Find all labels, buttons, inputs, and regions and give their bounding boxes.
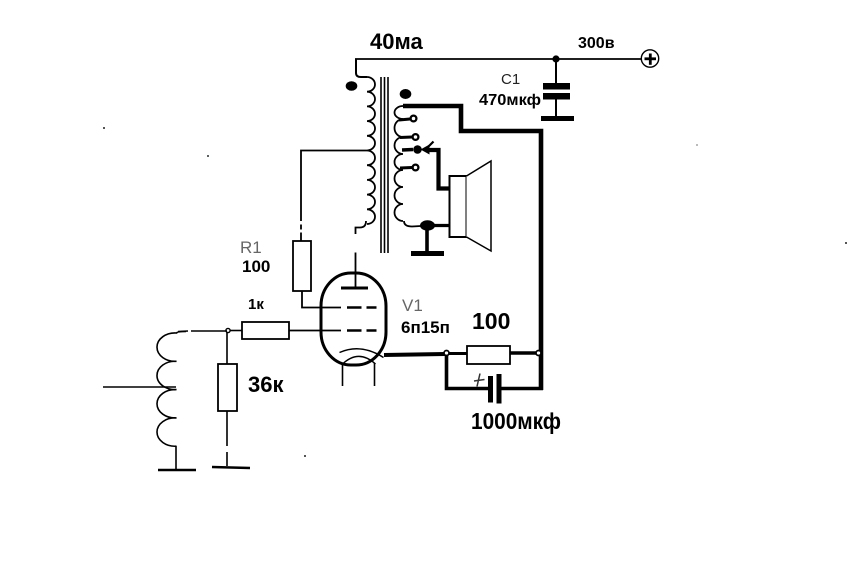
inductor L1 (input coil) [157, 332, 186, 447]
resistor 1к [242, 322, 289, 339]
capacitor C1 470мкф [543, 83, 570, 100]
wire: 36к bottom lead [226, 411, 228, 466]
ground: below 36к [212, 467, 250, 468]
svg-text:V1: V1 [402, 296, 423, 315]
wire: coil center tap [103, 386, 176, 388]
wire: junction to 36к [226, 332, 228, 364]
wire: C1 bottom plate to ground bar [555, 100, 557, 117]
transformer T1 primary winding [367, 77, 375, 224]
resistor 36к [218, 364, 237, 411]
svg-text:100: 100 [242, 257, 270, 276]
wire: rail to C1 top plate [555, 59, 557, 83]
wire: B+ top rail [355, 58, 642, 60]
tap 2 of secondary [400, 134, 418, 140]
wire: R1 bottom to screen grid [302, 291, 341, 308]
svg-text:40ма: 40ма [370, 29, 423, 54]
wire: secondary bottom lead [404, 221, 421, 227]
wire: junction to 1к resistor [230, 330, 242, 332]
node: junction of rail and C1 [552, 55, 559, 62]
ground: below input coil [158, 469, 196, 472]
stray speck 4 [207, 155, 209, 157]
heater pins of V1 [343, 363, 375, 386]
resistor 100 (cathode) [467, 346, 510, 364]
wire: ultralinear tap to R1 top [301, 151, 367, 242]
wire: bypass branch left [447, 355, 489, 389]
node: transformer primary phase dot [346, 81, 358, 91]
arrow: wiper selector [421, 142, 434, 155]
speaker LS1 [450, 161, 492, 251]
stray speck 5 [696, 144, 698, 146]
node: transformer secondary phase dot [400, 89, 412, 99]
ground: below C1 [541, 116, 574, 121]
grid g2 (dashed) of tube [347, 306, 377, 309]
grid g1 (dashed) of tube [347, 329, 377, 332]
resistor R1 100 [293, 241, 311, 291]
node: cathode junction left [444, 351, 449, 356]
svg-text:470мкф: 470мкф [479, 92, 541, 109]
stray speck 2 [845, 242, 847, 244]
svg-text:1000мкф: 1000мкф [471, 408, 561, 434]
svg-text:6п15п: 6п15п [401, 318, 450, 337]
tap 4 of secondary [400, 165, 418, 171]
svg-text:100: 100 [472, 308, 510, 334]
polarity + mark [474, 374, 485, 387]
transformer T1 core [381, 77, 388, 253]
capacitor 1000мкф [488, 374, 502, 404]
anode plate of V1 [341, 287, 368, 290]
svg-text:36к: 36к [248, 372, 284, 397]
transformer T1 secondary winding [395, 106, 404, 221]
ground: below speaker junction [411, 228, 444, 254]
terminal: +300V supply [641, 50, 658, 67]
svg-text:C1: C1 [501, 71, 520, 88]
cathode of V1 [340, 349, 384, 365]
svg-text:1к: 1к [248, 296, 264, 313]
wire: coil bottom lead [175, 446, 177, 469]
wire: cathode resistor to right bus [510, 351, 540, 354]
tap 3 of secondary (selected wiper) [402, 145, 422, 154]
wire: secondary top lead to right bus [403, 106, 541, 390]
tube V1 envelope [321, 273, 386, 365]
node: cathode junction right [536, 351, 541, 356]
node: grid input junction [226, 328, 230, 332]
wire: bypass branch right [502, 387, 544, 391]
stray speck 3 [304, 455, 306, 457]
wire: wiper to speaker top [428, 150, 449, 189]
wire: input top lead [178, 330, 227, 333]
wire: primary top lead from rail [356, 59, 367, 77]
node: secondary bottom junction dot [420, 220, 435, 230]
wire: 1к to control grid [289, 330, 341, 332]
svg-text:300в: 300в [578, 35, 615, 52]
stray speck 1 [103, 127, 105, 129]
wire: anode lead to primary bottom [356, 221, 367, 288]
wire: junction to speaker bottom [427, 224, 449, 227]
tap 1 of secondary [399, 116, 416, 122]
wire: cathode lead [384, 354, 445, 355]
svg-text:R1: R1 [240, 238, 262, 257]
wire: junction to cathode resistor [449, 352, 467, 355]
